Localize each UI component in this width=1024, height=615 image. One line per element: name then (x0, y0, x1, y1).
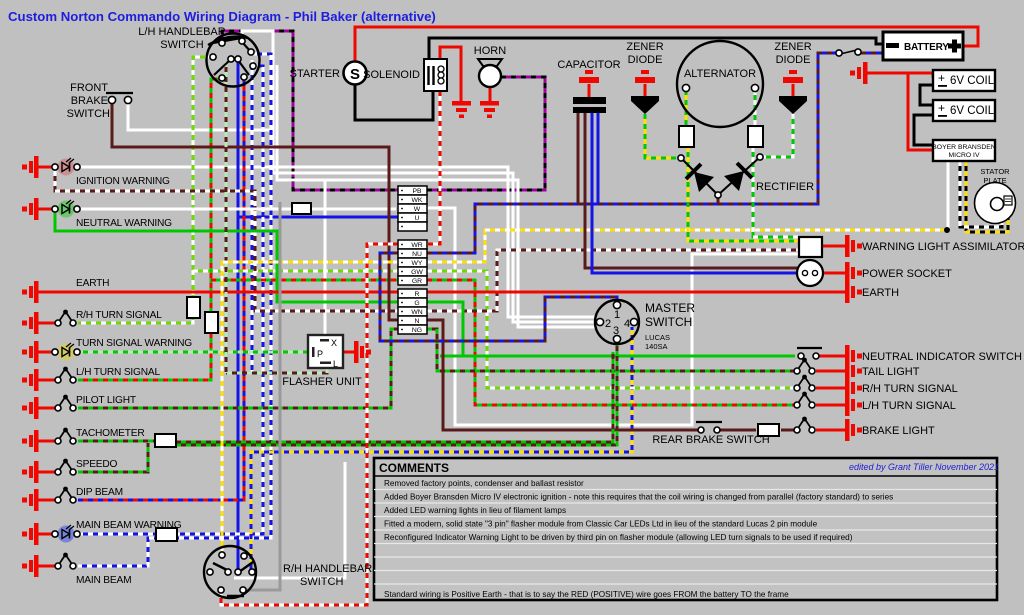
svg-text:NU: NU (412, 251, 422, 258)
svg-text:+: + (938, 71, 945, 85)
svg-text:SOLENOID: SOLENOID (363, 69, 420, 81)
zener diode right (779, 70, 807, 114)
svg-text:DIP BEAM: DIP BEAM (76, 487, 123, 498)
svg-text:MASTER: MASTER (645, 301, 695, 315)
svg-text:+: + (938, 101, 945, 115)
svg-text:R/H TURN SIGNAL: R/H TURN SIGNAL (862, 383, 958, 395)
wire green/white alternator right pin to fuse (754, 90, 757, 126)
wire U blue to U cell (238, 216, 398, 219)
svg-text:R: R (415, 291, 420, 298)
terminal main beam (22, 555, 39, 577)
terminal neutral warning (22, 198, 39, 220)
wire flasher L brown/lightgreen left (226, 368, 327, 373)
svg-text:EARTH: EARTH (76, 278, 109, 289)
switch neutral indicator switch (797, 348, 822, 359)
svg-text:TACHOMETER: TACHOMETER (76, 428, 145, 439)
svg-text:WARNING LIGHT ASSIMILATOR: WARNING LIGHT ASSIMILATOR (862, 241, 1024, 253)
wire brown/white L/H switch bundle down (225, 62, 228, 373)
svg-text:COMMENTS: COMMENTS (379, 461, 449, 475)
switch tail light (794, 358, 815, 374)
wire WY yellow/white to stator junction dot (427, 230, 946, 262)
svg-text:6V COIL: 6V COIL (950, 75, 995, 87)
svg-text:BRAKE LIGHT: BRAKE LIGHT (862, 425, 935, 437)
svg-text:L/H TURN SIGNAL: L/H TURN SIGNAL (862, 400, 956, 412)
horn (478, 59, 502, 87)
svg-text:SWITCH: SWITCH (645, 315, 692, 329)
terminal battery area (850, 62, 868, 84)
capacitor (573, 70, 606, 113)
LED ignition warning (52, 158, 80, 176)
terminal speedo (22, 461, 39, 483)
wire PB cell right to horn (427, 77, 545, 190)
LED neutral warning (52, 200, 80, 218)
front brake switch (106, 93, 133, 104)
terminal l/h turn signal right (845, 394, 862, 416)
connector block middle (398, 240, 427, 285)
svg-text:WR: WR (411, 242, 422, 249)
wire red assimilator to terminal (822, 245, 845, 248)
battery (883, 32, 963, 60)
svg-text:SPEEDO: SPEEDO (76, 459, 118, 470)
fuse right (748, 126, 763, 147)
svg-text:6V COIL: 6V COIL (950, 105, 995, 117)
svg-text:edited by Grant Tiller Novembe: edited by Grant Tiller November 2021 (849, 462, 999, 472)
svg-text:REAR BRAKE SWITCH: REAR BRAKE SWITCH (652, 434, 769, 446)
warning light assimilator box (799, 237, 822, 257)
power socket (797, 260, 823, 286)
svg-text:TAIL LIGHT: TAIL LIGHT (862, 366, 920, 378)
wire white boyer to junction dot (947, 161, 950, 230)
svg-text:ALTERNATOR: ALTERNATOR (684, 68, 756, 80)
LED main beam warning (52, 525, 80, 543)
switch main beam (55, 553, 76, 569)
svg-text:RECTIFIER: RECTIFIER (756, 181, 814, 193)
wire red left row stubs (38, 166, 52, 169)
connector block lower (398, 289, 427, 334)
wire yellow/green zener left down to rectifier (645, 114, 676, 158)
terminal r/h turn signal (22, 312, 39, 334)
svg-text:WK: WK (412, 197, 423, 204)
wire green tach second line (176, 352, 613, 442)
wire WR cell left to R/H switch bottom (221, 244, 398, 605)
resistor main beam warning (156, 528, 177, 541)
wire gray R/H switch (246, 202, 280, 590)
switch tachometer (55, 428, 76, 444)
svg-text:DIODE: DIODE (628, 54, 663, 66)
wire blue/white main beam from L/H switch (78, 54, 271, 566)
svg-text:FLASHER UNIT: FLASHER UNIT (282, 376, 362, 388)
terminal main beam warning (22, 523, 39, 545)
svg-text:Added Boyer Bransden Micro IV: Added Boyer Bransden Micro IV electronic… (384, 493, 893, 502)
wire black solenoid to battery (429, 38, 883, 59)
rectifier (678, 154, 763, 198)
wire GW cell left run (193, 270, 398, 273)
wire white front brake to master pin 2 (128, 102, 274, 130)
wire red battery to starter top (355, 27, 978, 61)
terminal earth right (845, 281, 862, 303)
terminal l/h turn signal (22, 369, 39, 391)
solenoid (424, 59, 447, 91)
svg-text:S: S (350, 66, 360, 83)
svg-text:140SA: 140SA (645, 342, 668, 351)
svg-text:L/H TURN SIGNAL: L/H TURN SIGNAL (76, 367, 161, 378)
svg-text:X: X (331, 338, 337, 348)
wire capacitor extra pair (577, 113, 580, 204)
wire green/white zener right down to rectifier (764, 114, 793, 157)
svg-text:N: N (415, 318, 420, 325)
svg-text:L: L (333, 359, 338, 369)
svg-text:GR: GR (412, 278, 422, 285)
wire green neutral warning to G cell (55, 213, 398, 302)
wire red battery terminal to coil1 (867, 73, 933, 78)
resistor rear brake (758, 424, 779, 436)
svg-text:BOYER BRANSDEN: BOYER BRANSDEN (932, 144, 996, 151)
wire GR cell right to L/H turn right row (427, 280, 795, 405)
wire red capacitor stem (588, 84, 591, 98)
switch r/h turn signal right (794, 375, 815, 391)
svg-text:HORN: HORN (474, 45, 506, 57)
stator plate (975, 183, 1016, 224)
wire green/white fuse down to assimilator (753, 147, 798, 237)
switch pilot light (55, 395, 76, 411)
svg-text:Removed factory points, conden: Removed factory points, condenser and ba… (384, 479, 584, 488)
wire PB horn: L/H switch to PB cell left (222, 31, 398, 190)
junction dot (944, 227, 950, 233)
wire blue/white main beam warning LED to resistor (78, 533, 156, 536)
terminal brake light (845, 419, 862, 441)
wire brown N: front brake to N cell (112, 102, 398, 320)
L/H handlebar switch (207, 34, 260, 87)
wire red flasher to terminal (343, 351, 354, 354)
wire capacitor brown drop to power socket (585, 113, 798, 268)
switch r/h turn signal (55, 310, 76, 326)
ground solenoid (452, 101, 471, 118)
svg-text:SWITCH: SWITCH (160, 39, 203, 51)
svg-text:Standard wiring is Positive Ea: Standard wiring is Positive Earth - that… (384, 590, 789, 599)
wire yellow/green alternator left pin to fuse (685, 90, 688, 126)
svg-text:Added LED warning lights in li: Added LED warning lights in lieu of fila… (384, 506, 566, 515)
wire U blue main vertical L/H to R/H switch (237, 61, 240, 569)
switch battery feed (836, 49, 861, 56)
wire green/brown tachometer to master pin3 (176, 342, 617, 445)
wire capacitor blue drop to power socket (592, 113, 798, 273)
wire GW cell right to R/H turn right row (427, 271, 795, 388)
wire black coil2 to boyer (914, 115, 933, 145)
wire red/green: L/H switch through fuse to L/H turn row (78, 79, 222, 380)
terminal pilot light (22, 397, 39, 419)
wire white L/H to master pin2 lower (242, 31, 596, 322)
wire brown/white ignition warning to WN cell (55, 171, 398, 311)
svg-text:R/H HANDLEBAR: R/H HANDLEBAR (283, 563, 372, 575)
coil 1 (933, 70, 995, 91)
wire red solenoid to ground (440, 47, 461, 101)
svg-text:1: 1 (614, 309, 620, 321)
wire blue/white main beam warning from L/H switch (176, 66, 263, 534)
svg-text:BATTERY: BATTERY (904, 42, 949, 53)
svg-text:P: P (317, 349, 323, 359)
wire WR solenoid to WR cell (427, 91, 440, 244)
wire green/yellow fuse down to assimilator (688, 147, 798, 241)
svg-text:U: U (415, 215, 420, 222)
svg-text:G: G (414, 300, 419, 307)
comments box (374, 458, 997, 600)
wire lightgreen/white: L/H switch through fuse to R/H turn row (78, 57, 210, 323)
svg-text:L/H HANDLEBAR: L/H HANDLEBAR (138, 26, 225, 38)
alternator (677, 41, 763, 127)
svg-text:W: W (414, 206, 421, 213)
fuse left (679, 126, 694, 147)
svg-text:PILOT LIGHT: PILOT LIGHT (76, 395, 136, 406)
fuse l/h turn (205, 312, 218, 333)
wire tach left stub (78, 440, 155, 443)
svg-text:NEUTRAL WARNING: NEUTRAL WARNING (76, 218, 172, 229)
wire white L/H switch to flasher X (277, 65, 596, 336)
svg-text:SWITCH: SWITCH (67, 108, 110, 120)
svg-text:DIODE: DIODE (776, 54, 811, 66)
switch dip beam (55, 487, 76, 503)
svg-text:EARTH: EARTH (862, 287, 899, 299)
master switch (595, 300, 639, 344)
terminal flasher terminal (354, 341, 371, 363)
LED turn signal warning (52, 343, 80, 361)
wire NG pilot light to NG cell (78, 329, 398, 408)
terminal dip beam (22, 489, 39, 511)
svg-text:Fitted a modern, solid state ": Fitted a modern, solid state "3 pin" fla… (384, 520, 818, 529)
svg-text:POWER SOCKET: POWER SOCKET (862, 268, 952, 280)
terminal r/h turn signal right (845, 377, 862, 399)
wire WY cell left to R/H switch (222, 262, 398, 554)
starter S (344, 62, 367, 85)
svg-text:LUCAS: LUCAS (645, 333, 670, 342)
terminal turn signal warning (22, 341, 39, 363)
svg-text:NEUTRAL INDICATOR SWITCH: NEUTRAL INDICATOR SWITCH (862, 351, 1022, 363)
wire speedo joins tach (78, 443, 148, 472)
switch l/h turn signal (55, 367, 76, 383)
terminal neutral indicator switch (845, 345, 862, 367)
wire white R/H switch right (234, 462, 345, 578)
wire red power socket to terminal (823, 272, 845, 275)
svg-text:MAIN BEAM: MAIN BEAM (76, 575, 131, 586)
wire NU cell right up to capacitor run and battery switch (427, 53, 836, 253)
wire WN cell right to assimilator (427, 250, 798, 311)
wire N cell right to rear brake switch (427, 320, 700, 430)
svg-text:CAPACITOR: CAPACITOR (557, 59, 620, 71)
wire rear brake switch to resistor to toggle (719, 429, 756, 432)
terminal tachometer (22, 430, 39, 452)
svg-text:SWITCH: SWITCH (300, 576, 343, 588)
wire red right rows to terminals (816, 355, 845, 358)
wire yellow/blue R/H switch to master pin4 (251, 327, 632, 569)
wire red zener right stem (792, 84, 795, 96)
terminal earth left (22, 281, 39, 303)
coil 2 (933, 100, 995, 121)
wire white ignition to master pin2 upper (78, 167, 596, 317)
wire black starter loop to solenoid (355, 85, 433, 120)
wire red earth long row (38, 291, 845, 294)
wire NG cell right to tail light row (427, 329, 795, 371)
svg-text:GW: GW (411, 269, 423, 276)
svg-text:MICRO IV: MICRO IV (949, 152, 980, 159)
svg-text:WY: WY (412, 260, 423, 267)
wire red horn to ground (489, 87, 492, 101)
terminal ignition warning (22, 156, 39, 178)
svg-text:Reconfigured Indicator Warning: Reconfigured Indicator Warning Light to … (384, 533, 853, 542)
zener diode left (631, 70, 659, 114)
svg-text:STATOR: STATOR (980, 167, 1010, 176)
svg-text:4: 4 (624, 318, 630, 330)
svg-text:IGNITION WARNING: IGNITION WARNING (76, 176, 170, 187)
wire G cell right to neutral indicator switch (427, 302, 795, 356)
wire black coil1 to coil2 (920, 85, 933, 105)
svg-text:BRAKE: BRAKE (71, 95, 108, 107)
wire black/white boyer to stator (960, 161, 1002, 227)
wire rectifier junction stub (717, 198, 720, 204)
wire dip beam red/blue to L/H switch (78, 80, 244, 500)
svg-text:WN: WN (411, 309, 422, 316)
svg-text:PB: PB (412, 188, 422, 195)
svg-text:TURN SIGNAL WARNING: TURN SIGNAL WARNING (76, 338, 192, 349)
svg-text:STARTER: STARTER (290, 68, 340, 80)
wire turn signal warning green to flasher P (78, 351, 308, 354)
flasher unit (308, 335, 343, 369)
svg-text:PLATE: PLATE (983, 176, 1006, 185)
svg-text:ZENER: ZENER (626, 41, 663, 53)
connector white wire (292, 203, 311, 214)
wire black/yellow boyer to stator (966, 161, 1008, 232)
resistor tachometer (155, 434, 176, 447)
boyer bransden micro IV (932, 140, 996, 161)
connector block upper (398, 186, 427, 231)
switch rear brake (696, 422, 722, 433)
svg-text:3: 3 (613, 325, 619, 337)
ground horn (480, 101, 499, 118)
svg-text:2: 2 (605, 318, 611, 330)
wire white front brake right pin short (127, 100, 130, 104)
R/H handlebar switch (204, 546, 256, 598)
switch l/h turn signal right (794, 392, 815, 408)
wire red zener left stem (644, 84, 647, 96)
switch speedo (55, 459, 76, 475)
wire NU battery switch to battery (861, 52, 883, 55)
wire blue second from switch (251, 60, 254, 372)
terminal tail light (845, 360, 862, 382)
svg-text:FRONT: FRONT (70, 82, 108, 94)
wire GR cell left run (211, 279, 398, 282)
terminal power socket (845, 262, 862, 284)
wire red down to boyer (908, 73, 933, 150)
switch brake light (794, 417, 815, 433)
svg-text:ZENER: ZENER (774, 41, 811, 53)
svg-text:R/H TURN SIGNAL: R/H TURN SIGNAL (76, 310, 162, 321)
fuse r/h turn (187, 297, 200, 318)
wire NU cell left to master pin1 (380, 253, 617, 341)
wire white W cell right, y425 run, x692 vertical to assimilator (427, 208, 798, 425)
svg-text:Custom Norton Commando Wiring: Custom Norton Commando Wiring Diagram - … (8, 9, 436, 24)
wire white neutral LED right pin to W cell (78, 208, 396, 211)
terminal warning light assimilator (845, 235, 862, 257)
svg-text:NG: NG (412, 327, 422, 334)
